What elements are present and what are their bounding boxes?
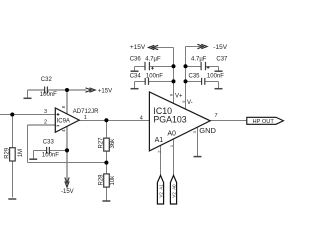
svg-text:C37: C37: [216, 56, 228, 62]
wire V+ rail down to IC10: [173, 48, 175, 108]
resistor R28 body: [104, 174, 110, 187]
wire input net to IC9A pin 3: [0, 114, 55, 116]
wire V- rail down to IC10: [185, 47, 187, 112]
wire C36 right lead to V+ rail: [150, 66, 174, 68]
ground bar for C35: [215, 88, 223, 90]
polarity plus mark C36: [151, 67, 154, 70]
svg-text:C35: C35: [189, 73, 201, 79]
wire C35 left lead from V- rail: [186, 81, 202, 83]
capacitor C35 plates: [202, 78, 205, 85]
svg-text:1: 1: [84, 115, 87, 121]
svg-text:GND: GND: [199, 126, 216, 135]
wire C32 left lead: [28, 89, 45, 91]
svg-text:V-: V-: [187, 100, 193, 106]
svg-text:100nF: 100nF: [207, 73, 224, 79]
svg-text:HP OUT: HP OUT: [253, 119, 275, 125]
svg-text:3: 3: [44, 109, 47, 115]
wire C36 ground stub: [134, 67, 136, 71]
svg-text:A0: A0: [167, 130, 176, 137]
svg-text:R29: R29: [4, 147, 10, 159]
svg-text:V2_A0: V2_A0: [171, 184, 176, 198]
wire IC9A pin 8 supply: [66, 90, 68, 114]
svg-text:+15V: +15V: [130, 44, 146, 51]
capacitor C37 plates: [201, 62, 205, 70]
svg-text:4.7µF: 4.7µF: [145, 57, 161, 63]
amplifier IC10 PGA103 triangle: [149, 92, 210, 151]
svg-text:7: 7: [215, 113, 218, 119]
ground bar for IC10 GND pin: [194, 156, 202, 158]
svg-text:V2_A1: V2_A1: [158, 184, 163, 198]
ground bar for C33: [29, 158, 37, 160]
wire junction to +15V arrow: [67, 89, 87, 91]
svg-text:R27: R27: [98, 137, 104, 149]
svg-text:+15V: +15V: [98, 89, 112, 95]
-15V arrow at IC9A pin 4: [65, 177, 69, 187]
svg-text:4.7µF: 4.7µF: [191, 56, 207, 62]
op-amp IC9A plus input marker: [57, 113, 60, 116]
svg-text:4: 4: [140, 115, 143, 121]
resistor R29 body: [10, 148, 16, 161]
svg-text:V+: V+: [175, 94, 183, 100]
wire C36 left lead: [135, 66, 145, 68]
tag V2_A1: [157, 175, 163, 204]
wire R28 top lead: [106, 163, 108, 174]
wire R29 top lead: [12, 115, 14, 148]
capacitor C36 plates: [145, 62, 149, 70]
wire IC9A output to IC10 input: [79, 120, 150, 122]
wire -15V top arrow feed: [186, 46, 202, 48]
op-amp IC9A triangle: [55, 108, 79, 132]
wire C33 right lead: [50, 150, 67, 152]
tag V2_A0: [170, 175, 176, 204]
svg-text:C32: C32: [41, 77, 53, 83]
op-amp IC9A minus input marker: [57, 125, 60, 127]
svg-text:R28: R28: [98, 174, 104, 186]
ground bar for R29: [8, 198, 16, 200]
ground bar for C32: [24, 97, 32, 99]
wire C33 ground stub: [33, 151, 35, 159]
+15V arrow top left: [149, 45, 159, 49]
wire R28 bottom lead: [106, 187, 108, 201]
svg-text:PGA103: PGA103: [153, 115, 186, 125]
svg-text:A1: A1: [155, 137, 164, 144]
wire IC10 pin A0 to tag: [173, 137, 175, 176]
ground bar for C34: [131, 88, 139, 90]
svg-text:IC9A: IC9A: [57, 119, 70, 125]
junction node C34/V+ rail: [172, 79, 176, 83]
svg-text:100nF: 100nF: [146, 73, 163, 79]
resistor R27 body: [104, 138, 110, 151]
ground bar for R28: [102, 200, 110, 202]
wire R27 top lead: [106, 121, 108, 139]
junction node output/R27: [104, 118, 108, 122]
svg-text:100nF: 100nF: [42, 153, 59, 159]
junction node input/R29: [10, 113, 14, 117]
svg-text:1M: 1M: [18, 149, 24, 157]
polarity plus mark C37: [207, 66, 210, 69]
ground bar for C36: [131, 70, 139, 72]
wire C34 left lead: [135, 81, 145, 83]
junction node C37/V- rail: [184, 64, 188, 68]
svg-text:100nF: 100nF: [40, 92, 57, 98]
-15V arrow top right: [197, 44, 207, 48]
wire IC9A pin 2: [28, 124, 56, 126]
junction node C35/V- rail: [184, 79, 188, 83]
wire feedback vertical: [27, 125, 29, 163]
capacitor C33 plates: [47, 147, 50, 154]
wire C34 right lead to V+ rail: [149, 81, 174, 83]
junction node C36/V+ rail: [172, 64, 176, 68]
svg-text:36k: 36k: [110, 138, 116, 149]
wire feedback horizontal to R27/R28 node: [28, 162, 107, 164]
wire C35 right lead: [205, 81, 218, 83]
wire IC10 pin A1 to tag: [160, 143, 162, 176]
wire C33 left lead: [34, 150, 47, 152]
wire IC10 GND pin: [197, 124, 199, 156]
wire R27 bottom lead: [106, 151, 108, 162]
svg-text:-15V: -15V: [213, 44, 227, 51]
capacitor C34 plates: [145, 78, 148, 85]
wire C37 left lead from V- rail: [186, 66, 201, 68]
svg-text:10k: 10k: [110, 175, 116, 186]
wire C35 ground stub: [218, 82, 220, 89]
junction node R27/R28 feedback: [104, 161, 108, 165]
wire +15V arrow to left rail: [152, 47, 174, 49]
wire C34 ground stub: [134, 82, 136, 89]
wire C37 ground stub: [218, 67, 220, 71]
wire C32 right lead to junction: [48, 89, 67, 91]
junction node C33/pin4: [65, 148, 69, 152]
wire C37 right lead: [206, 66, 219, 68]
junction node C32/pin8/+15V: [65, 88, 69, 92]
capacitor C32 plates: [45, 87, 48, 94]
svg-text:-15V: -15V: [61, 189, 74, 195]
wire R29 bottom lead: [12, 161, 14, 198]
svg-text:C36: C36: [130, 57, 142, 63]
svg-text:C34: C34: [130, 73, 142, 79]
wire IC9A pin 4 supply down to -15V arrow: [66, 126, 68, 181]
wire IC10 output pin 7 to HP OUT tag: [210, 120, 247, 122]
wire C32 ground stub: [27, 90, 29, 98]
svg-text:C33: C33: [43, 139, 55, 145]
tag HP OUT: [247, 117, 284, 124]
svg-text:2: 2: [44, 120, 47, 126]
ground bar for C37: [215, 70, 223, 72]
+15V arrow at IC9A pin 8: [86, 88, 96, 92]
